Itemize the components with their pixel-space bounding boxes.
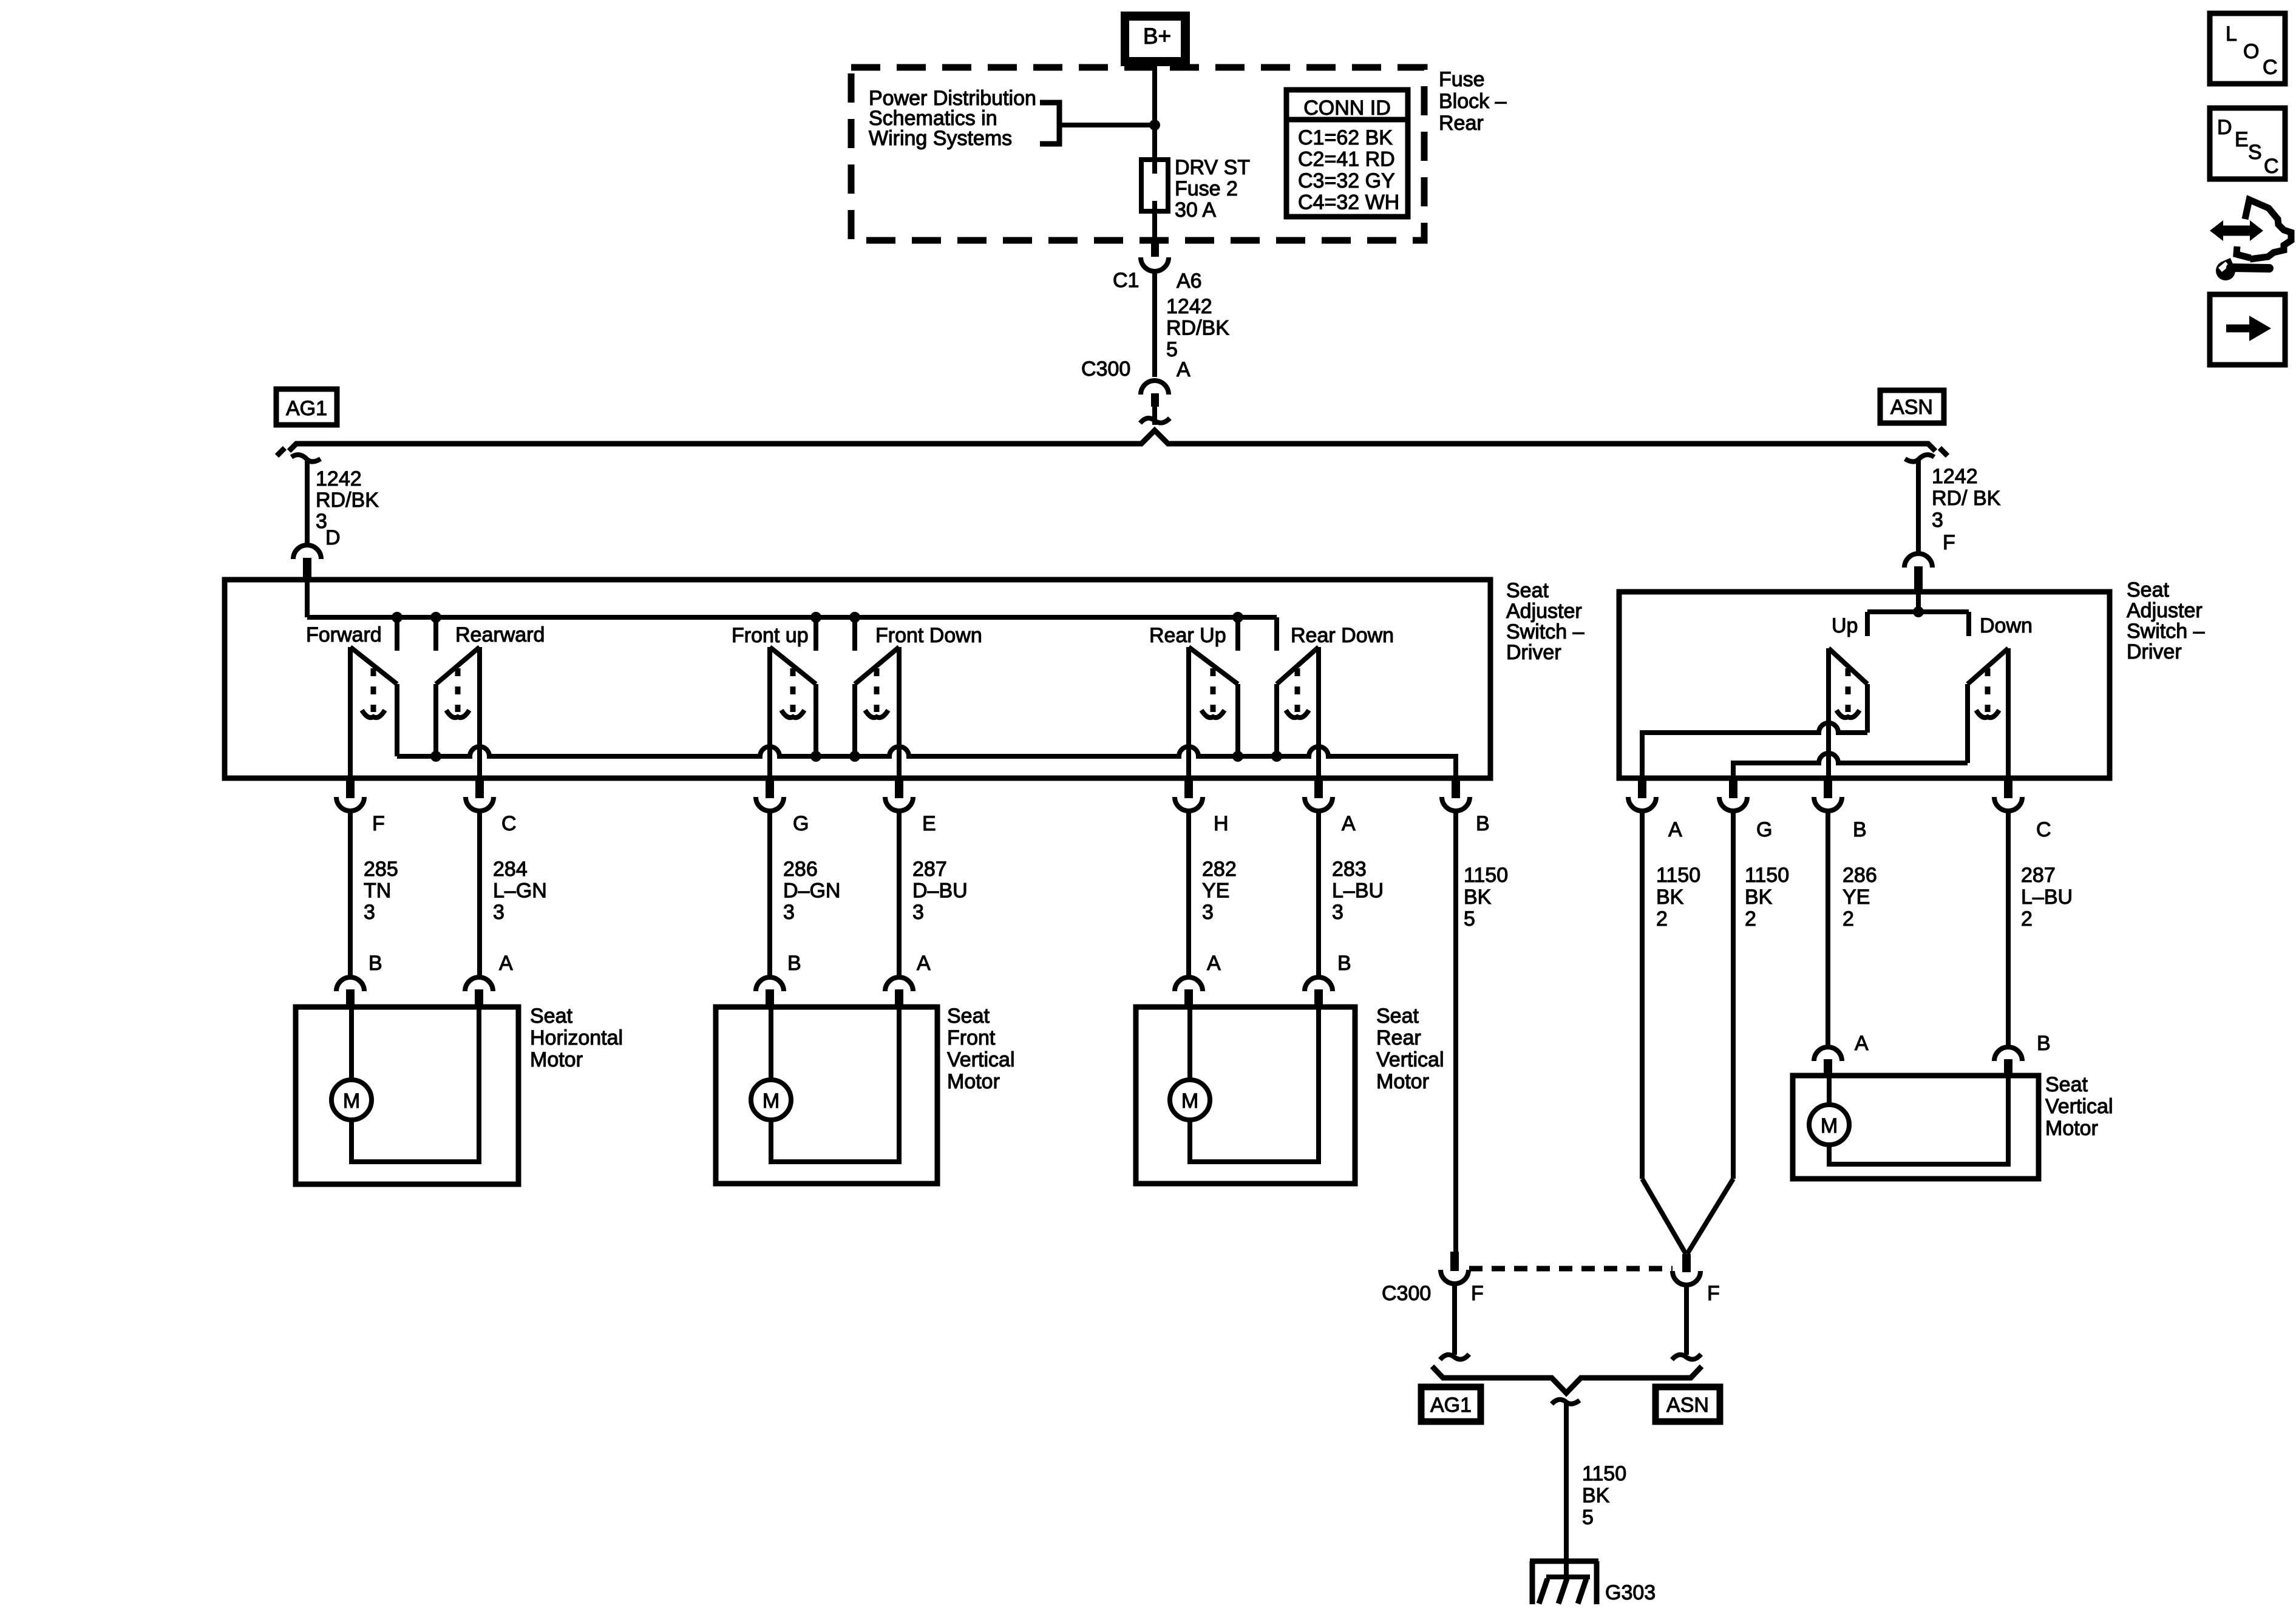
svg-text:1242: 1242 bbox=[1166, 295, 1212, 318]
svg-text:C4=32 WH: C4=32 WH bbox=[1298, 191, 1399, 214]
svg-text:5: 5 bbox=[1464, 907, 1475, 931]
svg-text:D–BU: D–BU bbox=[912, 880, 968, 903]
svg-text:D: D bbox=[2217, 116, 2232, 139]
svg-text:A: A bbox=[499, 952, 513, 975]
svg-text:A: A bbox=[917, 952, 931, 975]
svg-text:BK: BK bbox=[1464, 886, 1492, 909]
svg-text:Fuse 2: Fuse 2 bbox=[1175, 177, 1238, 200]
svg-text:ASN: ASN bbox=[1666, 1394, 1709, 1417]
svg-text:1242: 1242 bbox=[316, 467, 362, 490]
svg-text:2: 2 bbox=[1843, 907, 1854, 931]
svg-text:DRV ST: DRV ST bbox=[1175, 156, 1250, 179]
svg-text:A: A bbox=[1668, 818, 1682, 841]
svg-text:286: 286 bbox=[1843, 864, 1877, 887]
svg-text:3: 3 bbox=[493, 901, 504, 924]
svg-text:Motor: Motor bbox=[530, 1048, 583, 1071]
svg-text:Driver: Driver bbox=[1506, 641, 1561, 664]
svg-text:C2=41 RD: C2=41 RD bbox=[1298, 148, 1395, 171]
svg-text:1150: 1150 bbox=[1656, 864, 1700, 887]
svg-text:A6: A6 bbox=[1177, 269, 1202, 293]
svg-text:Rear Up: Rear Up bbox=[1149, 624, 1226, 647]
svg-text:G: G bbox=[1756, 818, 1772, 841]
svg-text:1150: 1150 bbox=[1464, 864, 1508, 887]
svg-text:Rearward: Rearward bbox=[455, 623, 545, 646]
svg-text:M: M bbox=[1181, 1090, 1198, 1113]
svg-text:Driver: Driver bbox=[2127, 640, 2182, 663]
svg-text:D: D bbox=[325, 526, 341, 549]
svg-text:L–GN: L–GN bbox=[493, 880, 547, 903]
svg-text:B: B bbox=[2037, 1032, 2051, 1055]
svg-text:Motor: Motor bbox=[1376, 1070, 1429, 1093]
svg-text:C1: C1 bbox=[1113, 269, 1139, 292]
svg-text:Switch –: Switch – bbox=[2127, 620, 2205, 643]
svg-text:286: 286 bbox=[783, 858, 818, 881]
svg-text:Adjuster: Adjuster bbox=[1506, 600, 1582, 623]
svg-text:Forward: Forward bbox=[306, 623, 382, 646]
svg-text:AG1: AG1 bbox=[1430, 1394, 1472, 1417]
svg-text:B: B bbox=[1337, 952, 1351, 975]
svg-text:Front up: Front up bbox=[732, 624, 809, 647]
svg-text:30 A: 30 A bbox=[1175, 198, 1216, 222]
svg-text:BK: BK bbox=[1745, 886, 1773, 909]
svg-text:Up: Up bbox=[1832, 614, 1858, 637]
svg-text:287: 287 bbox=[2021, 864, 2056, 887]
svg-text:BK: BK bbox=[1582, 1484, 1610, 1507]
svg-text:G: G bbox=[793, 812, 809, 835]
svg-text:2: 2 bbox=[2021, 907, 2033, 931]
svg-text:Rear: Rear bbox=[1376, 1026, 1421, 1049]
svg-text:M: M bbox=[1821, 1114, 1838, 1137]
svg-text:Seat: Seat bbox=[1376, 1005, 1419, 1028]
svg-text:C: C bbox=[501, 812, 517, 835]
svg-text:C300: C300 bbox=[1081, 358, 1130, 381]
svg-text:G303: G303 bbox=[1605, 1581, 1656, 1604]
svg-text:Motor: Motor bbox=[947, 1070, 1000, 1093]
svg-text:283: 283 bbox=[1332, 858, 1367, 881]
svg-text:B+: B+ bbox=[1143, 24, 1171, 49]
svg-text:Down: Down bbox=[1980, 614, 2033, 637]
svg-text:O: O bbox=[2243, 40, 2259, 63]
svg-text:B: B bbox=[369, 952, 382, 975]
svg-text:Horizontal: Horizontal bbox=[530, 1026, 623, 1049]
svg-text:2: 2 bbox=[1656, 907, 1668, 931]
svg-text:1150: 1150 bbox=[1582, 1462, 1626, 1485]
svg-text:RD/BK: RD/BK bbox=[316, 489, 379, 512]
svg-text:Vertical: Vertical bbox=[947, 1048, 1015, 1071]
svg-text:3: 3 bbox=[1332, 901, 1343, 924]
svg-text:287: 287 bbox=[912, 858, 947, 881]
svg-text:Seat: Seat bbox=[1506, 579, 1549, 602]
svg-text:E: E bbox=[2235, 128, 2249, 151]
svg-text:Rear Down: Rear Down bbox=[1291, 624, 1394, 647]
svg-text:3: 3 bbox=[1932, 509, 1943, 532]
svg-text:C: C bbox=[2036, 818, 2051, 841]
svg-text:C3=32 GY: C3=32 GY bbox=[1298, 169, 1395, 192]
svg-text:E: E bbox=[922, 812, 936, 835]
svg-text:F: F bbox=[1471, 1282, 1484, 1305]
svg-text:Wiring Systems: Wiring Systems bbox=[869, 127, 1012, 150]
svg-text:B: B bbox=[1853, 818, 1867, 841]
svg-text:284: 284 bbox=[493, 858, 528, 881]
svg-text:Seat: Seat bbox=[947, 1005, 990, 1028]
svg-text:L–BU: L–BU bbox=[2021, 886, 2073, 909]
svg-text:3: 3 bbox=[364, 901, 375, 924]
svg-text:F: F bbox=[372, 812, 385, 835]
svg-text:M: M bbox=[763, 1090, 779, 1113]
svg-text:B: B bbox=[1476, 812, 1490, 835]
svg-text:D–GN: D–GN bbox=[783, 880, 840, 903]
svg-text:C: C bbox=[2263, 56, 2278, 79]
svg-text:Switch –: Switch – bbox=[1506, 620, 1584, 643]
svg-text:5: 5 bbox=[1582, 1506, 1594, 1529]
svg-text:F: F bbox=[1707, 1282, 1720, 1305]
svg-text:Motor: Motor bbox=[2045, 1117, 2098, 1140]
svg-text:Seat: Seat bbox=[2127, 578, 2169, 602]
svg-text:BK: BK bbox=[1656, 886, 1684, 909]
svg-text:TN: TN bbox=[364, 880, 391, 903]
svg-text:YE: YE bbox=[1202, 880, 1229, 903]
svg-text:RD/ BK: RD/ BK bbox=[1932, 487, 2001, 510]
svg-text:AG1: AG1 bbox=[286, 397, 327, 420]
svg-text:C: C bbox=[2264, 155, 2279, 178]
svg-text:282: 282 bbox=[1202, 858, 1237, 881]
svg-text:Fuse: Fuse bbox=[1439, 68, 1485, 91]
svg-text:3: 3 bbox=[783, 901, 795, 924]
svg-text:Vertical: Vertical bbox=[2045, 1095, 2113, 1118]
svg-text:Front: Front bbox=[947, 1026, 996, 1049]
svg-text:H: H bbox=[1214, 812, 1229, 835]
svg-text:1150: 1150 bbox=[1745, 864, 1789, 887]
svg-text:C1=62 BK: C1=62 BK bbox=[1298, 126, 1393, 149]
svg-text:L–BU: L–BU bbox=[1332, 880, 1384, 903]
svg-text:A: A bbox=[1342, 812, 1356, 835]
svg-text:ASN: ASN bbox=[1890, 396, 1933, 419]
svg-text:285: 285 bbox=[364, 858, 398, 881]
svg-text:A: A bbox=[1177, 358, 1190, 381]
svg-text:Block –: Block – bbox=[1439, 90, 1507, 113]
svg-text:Front Down: Front Down bbox=[875, 624, 982, 647]
svg-text:1242: 1242 bbox=[1932, 465, 1978, 488]
svg-text:Vertical: Vertical bbox=[1376, 1048, 1444, 1071]
svg-text:Seat: Seat bbox=[530, 1005, 572, 1028]
svg-text:2: 2 bbox=[1745, 907, 1756, 931]
svg-text:S: S bbox=[2248, 141, 2262, 164]
svg-text:A: A bbox=[1207, 952, 1221, 975]
svg-text:Seat: Seat bbox=[2045, 1073, 2088, 1096]
svg-text:Adjuster: Adjuster bbox=[2127, 599, 2203, 622]
svg-text:3: 3 bbox=[1202, 901, 1214, 924]
svg-text:L: L bbox=[2226, 22, 2237, 46]
svg-text:C300: C300 bbox=[1382, 1282, 1431, 1305]
svg-text:M: M bbox=[343, 1090, 360, 1113]
svg-text:CONN ID: CONN ID bbox=[1303, 97, 1391, 120]
svg-text:B: B bbox=[787, 952, 801, 975]
svg-text:Rear: Rear bbox=[1439, 112, 1484, 135]
svg-text:A: A bbox=[1855, 1032, 1869, 1055]
svg-text:RD/BK: RD/BK bbox=[1166, 317, 1229, 340]
svg-text:F: F bbox=[1943, 531, 1955, 554]
svg-text:3: 3 bbox=[912, 901, 924, 924]
svg-text:YE: YE bbox=[1843, 886, 1870, 909]
